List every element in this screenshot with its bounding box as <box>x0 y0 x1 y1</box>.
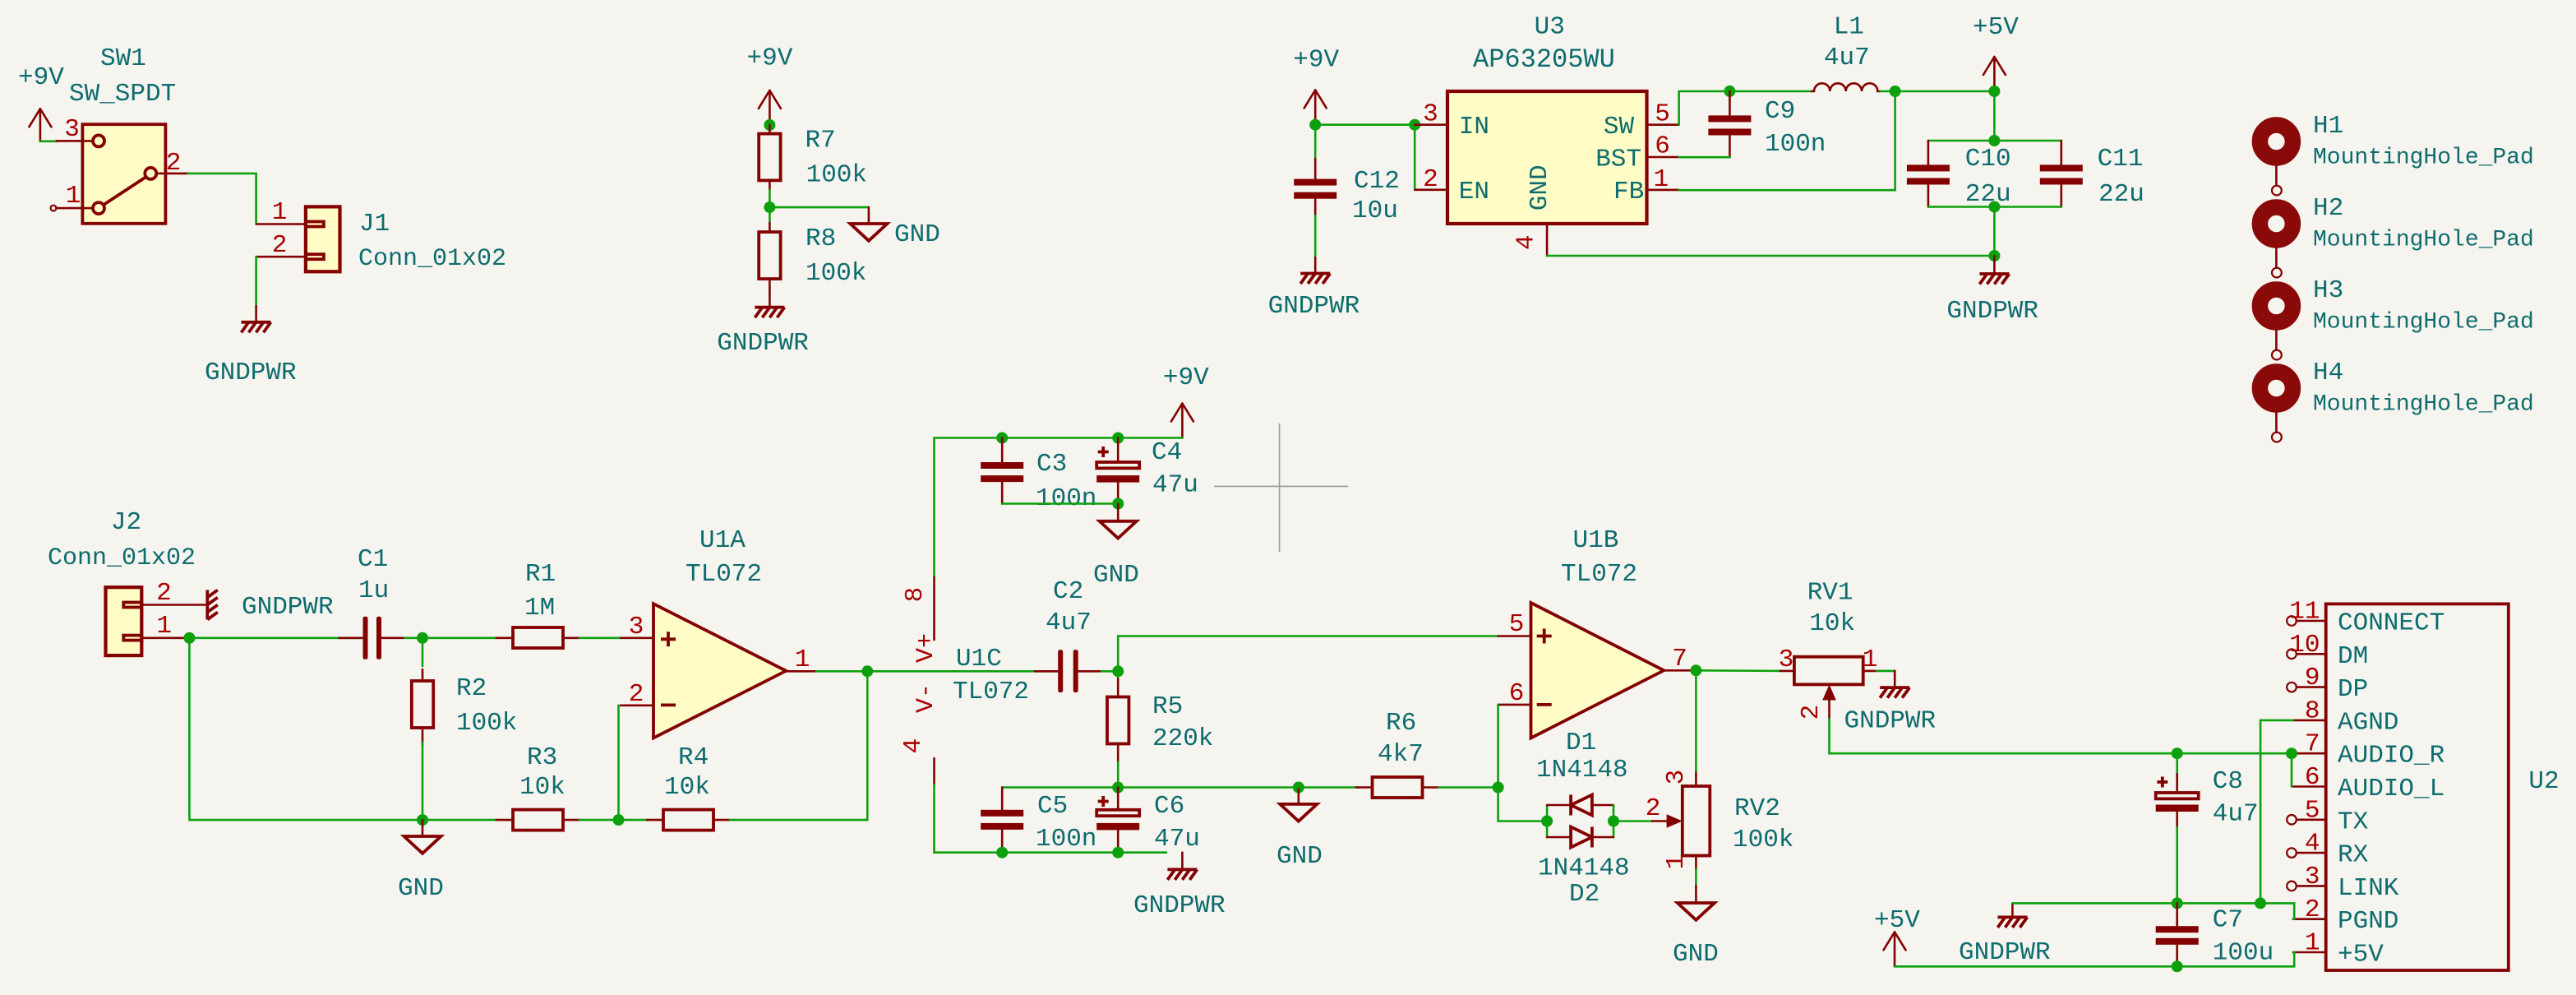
resistor R4 <box>647 743 730 831</box>
svg-text:GNDPWR: GNDPWR <box>1946 297 2038 326</box>
wire to GND <box>769 206 869 209</box>
svg-text:1: 1 <box>1653 165 1669 194</box>
svg-text:2: 2 <box>272 231 288 260</box>
svg-text:22u: 22u <box>1965 180 2011 209</box>
svg-text:3: 3 <box>1779 646 1794 674</box>
svg-text:2: 2 <box>1646 794 1661 823</box>
svg-text:Conn_01x02: Conn_01x02 <box>48 544 196 572</box>
wire U3 GND return <box>1547 255 1994 257</box>
svg-text:H3: H3 <box>2313 276 2343 305</box>
power GNDPWR (R8) <box>717 308 809 358</box>
svg-text:+5V: +5V <box>2338 941 2384 970</box>
power +5V (U2) <box>1874 906 1920 966</box>
resistor R7 <box>759 125 867 190</box>
wire C5/C6/R6 rail <box>1002 786 1299 789</box>
svg-text:MountingHole_Pad: MountingHole_Pad <box>2313 310 2534 336</box>
svg-text:TX: TX <box>2338 808 2369 836</box>
svg-text:U1C: U1C <box>956 645 1002 673</box>
svg-text:8: 8 <box>2305 696 2320 725</box>
svg-text:CONNECT: CONNECT <box>2338 609 2444 638</box>
wire down to C12 <box>1314 125 1317 161</box>
svg-text:C9: C9 <box>1765 97 1795 126</box>
svg-text:J1: J1 <box>359 210 390 238</box>
mounting hole H1 <box>2260 112 2533 196</box>
resistor R1 <box>496 560 579 648</box>
svg-text:3: 3 <box>1423 99 1438 128</box>
svg-text:R7: R7 <box>806 127 836 155</box>
op-amp U1C power pins <box>899 577 1029 784</box>
svg-text:220k: 220k <box>1152 724 1213 753</box>
svg-text:U1A: U1A <box>699 526 746 555</box>
svg-text:GND: GND <box>1673 940 1719 969</box>
wire V- down to gnd rail <box>935 784 1167 853</box>
junction bottom rail <box>1988 201 2000 213</box>
wire U1B.6 vertical <box>1497 705 1499 788</box>
junction diodes left <box>1541 816 1553 827</box>
svg-text:R3: R3 <box>527 743 557 772</box>
svg-text:1: 1 <box>156 612 172 641</box>
power GNDPWR (C12) <box>1268 257 1360 321</box>
svg-text:2: 2 <box>156 579 172 608</box>
svg-text:22u: 22u <box>2098 180 2144 209</box>
wire SW up to rail <box>1679 91 1812 125</box>
junction AUDIO_R pin <box>2286 747 2297 759</box>
junction R2 bottom / GND <box>417 814 428 826</box>
wire gnd rail to PGND <box>2012 903 2294 919</box>
wire C2 to U1B.5 <box>1118 636 1498 672</box>
svg-text:C12: C12 <box>1354 167 1400 196</box>
svg-text:+9V: +9V <box>747 44 793 72</box>
svg-text:10k: 10k <box>1809 609 1855 638</box>
svg-text:C7: C7 <box>2213 906 2243 935</box>
pin 10 DM <box>2287 631 2368 671</box>
regulator U3 <box>1415 13 1678 256</box>
svg-text:100k: 100k <box>1733 826 1794 854</box>
diode D2 (1N4148) <box>1538 805 1630 909</box>
op-amp U1A <box>621 526 817 738</box>
junction C7 bottom <box>2172 960 2183 972</box>
junction C2 out <box>1112 665 1124 677</box>
svg-text:LINK: LINK <box>2338 874 2399 903</box>
svg-text:3: 3 <box>2305 863 2320 891</box>
wire RV1 wiper to audio row <box>1830 719 2292 753</box>
svg-text:100n: 100n <box>1036 825 1096 854</box>
junction C9 top <box>1724 86 1735 97</box>
svg-text:H4: H4 <box>2313 359 2343 387</box>
wire R1 to U1A.3 <box>579 636 621 639</box>
resistor R2 <box>412 638 518 820</box>
capacitor C11 <box>2040 141 2144 209</box>
svg-text:MountingHole_Pad: MountingHole_Pad <box>2313 228 2534 253</box>
svg-text:C4: C4 <box>1152 438 1182 467</box>
junction diodes right <box>1608 816 1619 827</box>
svg-text:11: 11 <box>2289 598 2320 627</box>
svg-text:BST: BST <box>1595 145 1641 174</box>
power GND (input) <box>398 820 444 903</box>
svg-text:1N4148: 1N4148 <box>1538 854 1630 883</box>
wire AUDIO_L tie <box>2291 753 2293 786</box>
capacitor C3 <box>981 438 1096 514</box>
svg-text:GND: GND <box>1093 561 1139 590</box>
svg-text:6: 6 <box>1509 679 1525 708</box>
pin 11 CONNECT <box>2287 598 2444 638</box>
wire SW1 pin3 stub <box>40 141 57 143</box>
trimmer RV1 <box>1779 579 1878 720</box>
svg-text:1N4148: 1N4148 <box>1536 756 1628 784</box>
trimmer RV2 <box>1646 770 1794 870</box>
module U2 <box>2326 604 2560 970</box>
svg-text:47u: 47u <box>1152 471 1198 500</box>
power GNDPWR (J2 pin2, rotated) <box>207 590 333 622</box>
power +5V (U3) <box>1973 13 2019 91</box>
svg-text:IN: IN <box>1459 113 1489 141</box>
svg-text:C3: C3 <box>1036 450 1067 479</box>
power GNDPWR (U2) <box>1959 903 2051 967</box>
svg-text:9: 9 <box>2305 664 2320 692</box>
svg-text:4u7: 4u7 <box>1824 44 1870 72</box>
svg-text:C6: C6 <box>1154 792 1184 821</box>
svg-text:4u7: 4u7 <box>1046 609 1092 637</box>
svg-text:1: 1 <box>272 198 288 227</box>
power GNDPWR (J1) <box>205 306 297 387</box>
pin 6 AUDIO_L <box>2293 763 2445 803</box>
capacitor C10 <box>1907 141 2011 209</box>
wire +5V rail <box>1895 952 2294 966</box>
pin 7 AUDIO_R <box>2293 730 2445 771</box>
capacitor C8 (polarized) <box>2156 753 2259 903</box>
svg-text:1: 1 <box>66 182 81 211</box>
svg-text:8: 8 <box>901 587 930 603</box>
wire +9V node to U3.3 <box>1315 123 1415 126</box>
svg-text:RV2: RV2 <box>1734 794 1780 823</box>
svg-text:GNDPWR: GNDPWR <box>1133 891 1226 920</box>
svg-text:5: 5 <box>2305 796 2320 825</box>
svg-text:V+: V+ <box>912 633 940 663</box>
wire FB loop <box>1679 91 1895 190</box>
svg-text:10: 10 <box>2289 631 2320 659</box>
svg-text:FB: FB <box>1613 178 1644 206</box>
svg-text:AUDIO_R: AUDIO_R <box>2338 742 2444 771</box>
svg-text:U3: U3 <box>1535 13 1565 42</box>
junction L1 right <box>1890 86 1901 97</box>
svg-text:6: 6 <box>2305 763 2320 792</box>
power +9V (R7) <box>747 44 793 125</box>
svg-text:C1: C1 <box>358 545 388 574</box>
junction C3 top <box>996 433 1008 444</box>
connector J1 <box>256 198 506 273</box>
wire +5V down <box>1993 91 1996 141</box>
svg-text:6: 6 <box>1655 132 1670 161</box>
svg-text:R5: R5 <box>1152 692 1183 721</box>
wire C9 bottom to BST <box>1679 156 1730 159</box>
wire cap bottom rail <box>1928 206 2061 208</box>
wire L1 to +5V node <box>1881 90 1995 93</box>
power GNDPWR (op supply) <box>1133 853 1226 920</box>
svg-text:10u: 10u <box>1352 197 1398 225</box>
power GND (divider) <box>850 207 939 249</box>
capacitor C6 (polarized) <box>1096 788 1200 854</box>
svg-text:2: 2 <box>2305 895 2320 924</box>
wire U1B out to RV2.3 <box>1695 670 1697 771</box>
svg-text:DP: DP <box>2338 675 2368 704</box>
svg-text:D1: D1 <box>1566 729 1596 757</box>
svg-text:GNDPWR: GNDPWR <box>1959 938 2051 967</box>
wire AGND loop <box>2260 720 2293 904</box>
power GND (RV2) <box>1673 886 1719 969</box>
junction R7 top <box>764 119 775 131</box>
svg-text:SW: SW <box>1604 113 1635 141</box>
svg-text:GND: GND <box>1276 842 1323 871</box>
svg-text:MountingHole_Pad: MountingHole_Pad <box>2313 392 2534 418</box>
power +9V (U3) <box>1293 45 1339 124</box>
switch SW1 <box>51 44 188 224</box>
svg-text:AGND: AGND <box>2338 708 2398 737</box>
svg-text:10k: 10k <box>519 773 566 802</box>
capacitor C1 <box>339 545 405 659</box>
wire RV1.1 to GNDPWR <box>1877 671 1895 673</box>
svg-text:7: 7 <box>2305 730 2320 759</box>
svg-text:MountingHole_Pad: MountingHole_Pad <box>2313 146 2534 171</box>
wire SW1.2 to J1.1 <box>188 174 256 224</box>
junction U1B out <box>1690 664 1701 676</box>
junction C4 bottom <box>1112 498 1124 510</box>
svg-text:RV1: RV1 <box>1807 579 1854 608</box>
wire feedback vertical U1A.2 <box>617 706 620 820</box>
junction gnd node <box>1988 250 2000 261</box>
wire C12 to GNDPWR <box>1314 215 1317 257</box>
wire RV2.1 to GND <box>1695 869 1697 886</box>
svg-text:100n: 100n <box>1765 130 1826 159</box>
svg-text:2: 2 <box>1423 165 1438 194</box>
svg-text:5: 5 <box>1509 610 1525 639</box>
svg-text:+5V: +5V <box>1874 906 1920 935</box>
power GND (C5/C6 rail) <box>1276 788 1323 872</box>
power GNDPWR (RV1) <box>1844 671 1937 736</box>
svg-text:R4: R4 <box>678 743 709 772</box>
svg-text:5: 5 <box>1655 99 1670 128</box>
junction C6 bottom <box>1112 847 1124 858</box>
svg-text:1M: 1M <box>524 594 555 622</box>
svg-text:4u7: 4u7 <box>2213 800 2259 829</box>
svg-text:3: 3 <box>64 115 80 144</box>
svg-text:U1B: U1B <box>1573 526 1619 555</box>
svg-text:GND: GND <box>894 220 940 249</box>
resistor R8 <box>759 223 866 290</box>
junction U1A out <box>861 665 873 677</box>
svg-text:1u: 1u <box>358 576 389 605</box>
svg-text:4: 4 <box>1512 234 1541 250</box>
resistor R5 <box>1107 671 1213 787</box>
svg-text:TL072: TL072 <box>686 560 762 589</box>
junction C1/R2 <box>417 632 428 644</box>
pin 4 RX <box>2287 830 2368 870</box>
svg-text:47u: 47u <box>1154 825 1200 854</box>
svg-text:2: 2 <box>1797 705 1826 720</box>
svg-text:EN: EN <box>1459 178 1489 206</box>
inductor L1 <box>1812 13 1880 91</box>
junction C4 top <box>1112 433 1124 444</box>
mounting hole H2 <box>2260 194 2533 278</box>
svg-text:TL072: TL072 <box>1561 560 1637 589</box>
mounting hole H4 <box>2260 359 2533 442</box>
svg-text:AP63205WU: AP63205WU <box>1473 44 1615 75</box>
svg-text:C11: C11 <box>2098 145 2144 174</box>
svg-text:4k7: 4k7 <box>1378 740 1424 769</box>
svg-text:GND: GND <box>1526 164 1554 211</box>
svg-text:Conn_01x02: Conn_01x02 <box>358 245 506 273</box>
svg-text:100u: 100u <box>2213 939 2274 968</box>
mounting hole H3 <box>2260 276 2533 360</box>
resistor R3 <box>496 743 579 831</box>
junction +5V rail <box>1988 86 2000 97</box>
svg-text:10k: 10k <box>664 773 710 802</box>
junction audio/C8 <box>2172 747 2183 759</box>
pin 9 DP <box>2287 664 2368 704</box>
junction R5 bottom <box>1112 782 1124 794</box>
svg-text:L1: L1 <box>1834 13 1864 42</box>
svg-text:+5V: +5V <box>1973 13 2019 42</box>
connector J2 <box>48 508 205 655</box>
svg-text:U2: U2 <box>2528 767 2559 796</box>
pin 2 PGND <box>2293 895 2399 936</box>
wire IN to EN <box>1414 125 1416 190</box>
crosshair cursor <box>1214 423 1348 552</box>
svg-text:C8: C8 <box>2213 767 2243 796</box>
svg-text:R6: R6 <box>1386 709 1416 738</box>
wire down to diodes <box>1498 788 1548 821</box>
svg-text:GND: GND <box>398 874 444 903</box>
svg-text:+9V: +9V <box>1293 45 1339 74</box>
svg-text:GNDPWR: GNDPWR <box>1844 707 1937 736</box>
pin 1 +5V <box>2293 929 2384 970</box>
wire +9V rail <box>935 438 1183 578</box>
svg-text:V-: V- <box>912 683 940 713</box>
svg-text:100k: 100k <box>806 259 866 288</box>
svg-text:H2: H2 <box>2313 194 2343 223</box>
svg-text:R2: R2 <box>456 674 487 703</box>
svg-text:R8: R8 <box>806 224 836 253</box>
op-amp U1B <box>1498 526 1697 738</box>
svg-text:D2: D2 <box>1569 880 1600 909</box>
wire bottom row from J2 <box>189 638 496 820</box>
capacitor C2 <box>867 577 1118 692</box>
svg-text:4: 4 <box>899 738 928 754</box>
svg-text:1: 1 <box>795 646 810 674</box>
wire U1B out to RV1 <box>1696 669 1780 672</box>
wire R4 to output node <box>730 671 867 820</box>
svg-text:100k: 100k <box>806 161 867 190</box>
svg-text:GNDPWR: GNDPWR <box>717 329 809 358</box>
junction C5 bottom <box>996 847 1008 858</box>
junction C8 bottom <box>2172 897 2183 909</box>
junction J2 input <box>183 632 195 644</box>
junction C10/C11 top rail <box>1988 135 2000 146</box>
wire R7-R8 node <box>769 190 771 223</box>
junction U3 input <box>1409 119 1420 131</box>
svg-text:AUDIO_L: AUDIO_L <box>2338 775 2444 803</box>
power +9V (C3/C4) <box>1163 363 1209 438</box>
wire C1 to R1 <box>404 636 496 639</box>
svg-text:C10: C10 <box>1965 145 2011 174</box>
svg-text:100n: 100n <box>1036 484 1096 513</box>
svg-text:1: 1 <box>2305 929 2320 958</box>
svg-text:+9V: +9V <box>18 63 64 92</box>
svg-text:7: 7 <box>1672 645 1687 673</box>
svg-text:GNDPWR: GNDPWR <box>242 593 334 622</box>
capacitor C7 <box>2156 903 2274 967</box>
junction divider <box>764 201 775 213</box>
svg-text:100k: 100k <box>456 709 517 738</box>
svg-text:C2: C2 <box>1053 577 1083 606</box>
svg-text:GNDPWR: GNDPWR <box>205 359 297 387</box>
power +9V (SW1) <box>18 63 64 141</box>
wire R6 to U1B.6 <box>1439 786 1498 789</box>
wire J1.2 to GNDPWR <box>255 257 257 306</box>
svg-text:H1: H1 <box>2313 112 2343 141</box>
resistor R6 <box>1299 709 1439 798</box>
junction GND rail <box>1293 782 1304 794</box>
wire U1A out <box>816 670 867 673</box>
svg-text:SW_SPDT: SW_SPDT <box>69 80 176 109</box>
svg-text:3: 3 <box>1662 770 1691 785</box>
svg-text:TL072: TL072 <box>953 678 1029 706</box>
svg-text:1: 1 <box>1863 646 1878 674</box>
junction R6/U1B.6 <box>1493 782 1504 794</box>
svg-text:1: 1 <box>1662 854 1691 870</box>
capacitor C9 <box>1708 91 1826 159</box>
wire down to gnd node <box>1993 207 1996 257</box>
wire R8 to GNDPWR <box>769 290 771 308</box>
wire J2 to C1 <box>189 636 362 639</box>
svg-text:R1: R1 <box>525 560 556 589</box>
svg-text:PGND: PGND <box>2338 907 2398 936</box>
junction AGND rail <box>2255 897 2266 909</box>
power GNDPWR (U3 out) <box>1946 256 2038 326</box>
svg-text:GNDPWR: GNDPWR <box>1268 292 1360 321</box>
pin 3 LINK <box>2287 863 2399 903</box>
wire diodes to RV2 wiper <box>1613 820 1652 822</box>
svg-text:4: 4 <box>2305 830 2320 858</box>
wire cap top rail <box>1928 140 2061 142</box>
svg-text:3: 3 <box>629 613 644 641</box>
diode D1 (1N4148) <box>1536 729 1628 837</box>
svg-text:J2: J2 <box>111 508 141 537</box>
svg-text:SW1: SW1 <box>100 44 146 73</box>
capacitor C12 <box>1294 159 1400 225</box>
junction C12 top <box>1309 119 1321 131</box>
capacitor C5 <box>981 788 1096 854</box>
svg-text:+9V: +9V <box>1163 363 1209 392</box>
wire cap bottom rail <box>1002 502 1118 505</box>
svg-text:2: 2 <box>166 149 182 178</box>
capacitor C4 (polarized) <box>1096 438 1198 504</box>
pin 8 AGND <box>2293 696 2399 737</box>
wire R3 to R4 <box>579 819 647 821</box>
svg-text:RX: RX <box>2338 841 2369 870</box>
pin 5 TX <box>2287 796 2368 836</box>
power GND (C4) <box>1093 504 1139 590</box>
svg-text:C5: C5 <box>1037 792 1068 821</box>
svg-text:DM: DM <box>2338 642 2368 671</box>
svg-text:2: 2 <box>629 680 644 709</box>
junction feedback <box>613 814 625 826</box>
